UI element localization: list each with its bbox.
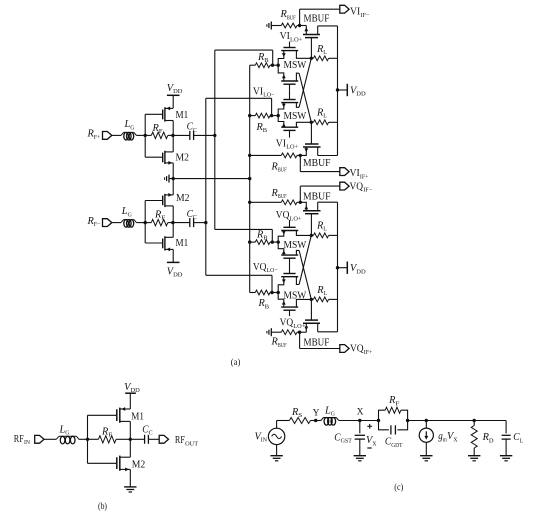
transistor MSW I1 xyxy=(278,42,311,66)
wire cross Q B xyxy=(299,250,311,299)
wire gate rail (b) xyxy=(87,415,89,463)
svg-text:M1: M1 xyxy=(176,110,189,121)
svg-text:IF−: IF− xyxy=(363,187,372,194)
label RL I-inner xyxy=(316,107,327,119)
svg-text:LO+: LO+ xyxy=(290,36,303,43)
svg-text:VI: VI xyxy=(253,86,263,97)
svg-text:D: D xyxy=(489,437,494,444)
node X xyxy=(357,408,364,423)
node drain A xyxy=(171,134,174,137)
svg-text:M2: M2 xyxy=(176,193,190,204)
svg-text:C: C xyxy=(149,430,153,437)
wire rail RF- xyxy=(206,98,272,292)
svg-text:IF−: IF− xyxy=(360,12,369,19)
node RF-right xyxy=(406,419,409,422)
wire xyxy=(79,438,88,440)
svg-text:LO+: LO+ xyxy=(290,215,302,222)
resistor RD xyxy=(471,421,494,456)
svg-text:VQ: VQ xyxy=(350,181,364,192)
svg-text:L: L xyxy=(520,437,524,444)
resistor RF (b) xyxy=(98,426,116,443)
transistor MSW Q4 xyxy=(278,220,311,242)
label MBUF I-B xyxy=(303,158,331,169)
svg-text:GDT: GDT xyxy=(391,442,402,449)
svg-text:DD: DD xyxy=(356,91,366,98)
svg-text:BUF: BUF xyxy=(287,15,296,22)
transistor MSW Q2 xyxy=(278,267,299,293)
transistor MSW I3 xyxy=(278,91,299,116)
label VI_LO- xyxy=(253,86,275,98)
svg-text:B: B xyxy=(265,303,270,310)
svg-text:R: R xyxy=(270,337,277,348)
node I-buffer A xyxy=(298,24,301,27)
inductor LG (stage A) xyxy=(121,119,137,140)
label MSW Q-top xyxy=(284,240,307,251)
node gm xyxy=(425,419,428,422)
svg-text:MSW: MSW xyxy=(284,290,307,301)
svg-text:R: R xyxy=(482,432,489,443)
svg-text:LO−: LO− xyxy=(263,92,274,99)
svg-text:F: F xyxy=(396,400,400,407)
node Q-buffer A xyxy=(298,331,301,334)
label MBUF Q-A xyxy=(303,191,331,202)
transistor MSW I4 xyxy=(278,116,311,138)
svg-text:M2: M2 xyxy=(132,459,146,470)
resistor RF (stage B) xyxy=(151,209,168,226)
svg-text:B: B xyxy=(263,127,268,134)
svg-text:F−: F− xyxy=(94,221,101,228)
label RB I-outer xyxy=(257,52,269,64)
svg-text:M2: M2 xyxy=(176,153,190,164)
label RL Q-inner xyxy=(316,220,327,232)
supply VDD (I) xyxy=(336,84,366,98)
label VX xyxy=(366,435,377,447)
node rail RF- stage xyxy=(204,221,207,224)
svg-text:LO+: LO+ xyxy=(293,323,305,330)
svg-text:G: G xyxy=(65,430,69,437)
svg-text:MSW: MSW xyxy=(284,240,307,251)
node drain B xyxy=(171,221,174,224)
svg-text:MBUF: MBUF xyxy=(303,158,331,169)
resistor RF (c) xyxy=(379,395,408,421)
svg-text:IN: IN xyxy=(261,437,268,444)
svg-text:R: R xyxy=(255,122,262,133)
label VQ_LO+ A xyxy=(276,210,302,222)
svg-text:R: R xyxy=(388,395,395,406)
wire xyxy=(137,222,146,224)
svg-text:VI: VI xyxy=(276,138,286,149)
svg-text:R: R xyxy=(316,44,323,55)
node Q-buffer B xyxy=(299,201,302,204)
label VI_LO+ A xyxy=(280,31,303,43)
transistor MSW Q3 xyxy=(278,242,299,267)
node gate rail B xyxy=(144,221,147,224)
label RB I-inner xyxy=(255,122,267,134)
svg-text:R: R xyxy=(316,285,323,296)
bias terminal Q-buffer A xyxy=(267,328,271,336)
supply VDD (b) xyxy=(124,382,140,409)
label RB Q-inner xyxy=(256,229,268,241)
label MBUF I-A xyxy=(304,13,330,24)
svg-text:IF+: IF+ xyxy=(360,173,369,180)
svg-text:VQ: VQ xyxy=(280,318,294,329)
svg-text:LO+: LO+ xyxy=(286,144,298,151)
wire xyxy=(145,222,173,224)
wire gate rail B xyxy=(144,201,146,244)
source gmVX xyxy=(419,421,458,456)
svg-text:R: R xyxy=(86,129,93,140)
wire I IF output A xyxy=(300,9,340,25)
label RBUF Q-A xyxy=(270,188,286,200)
transistor M2 (stage B NMOS) xyxy=(145,179,189,223)
svg-text:MBUF: MBUF xyxy=(303,191,331,202)
svg-text:(b): (b) xyxy=(98,501,107,512)
svg-text:M1: M1 xyxy=(176,238,189,249)
ground gm xyxy=(420,456,432,461)
label VI_IF- xyxy=(350,6,370,18)
label MSW I-top xyxy=(284,60,307,71)
svg-text:IF+: IF+ xyxy=(364,349,373,356)
input port RF+ xyxy=(86,129,121,141)
label MSW I-bot xyxy=(284,111,307,122)
svg-text:X: X xyxy=(357,408,364,418)
input port RF_IN xyxy=(14,434,57,446)
wire Q IF output B xyxy=(300,186,340,202)
svg-text:(c): (c) xyxy=(394,482,403,493)
ground VIN xyxy=(270,456,282,461)
node Y xyxy=(313,408,320,422)
svg-text:R: R xyxy=(101,426,108,437)
label VQ_IF+ xyxy=(350,344,372,356)
wire rail RF+ xyxy=(215,50,273,242)
label VI_LO+ B xyxy=(276,138,299,150)
svg-text:BUF: BUF xyxy=(278,342,287,349)
svg-text:DD: DD xyxy=(356,268,366,275)
resistor RBUF (Q inner) xyxy=(248,200,300,205)
transistor MBUF (Q outer) xyxy=(300,299,338,332)
wire xyxy=(408,420,507,422)
ground RD xyxy=(468,456,480,461)
svg-text:F+: F+ xyxy=(94,134,101,141)
svg-text:VQ: VQ xyxy=(253,262,267,273)
svg-text:R: R xyxy=(291,407,298,418)
wire xyxy=(277,420,290,422)
wire xyxy=(145,134,173,136)
output port IIF B xyxy=(340,168,349,176)
inductor LG (c) xyxy=(321,405,339,425)
svg-text:R: R xyxy=(279,9,286,20)
wire VDD rail I xyxy=(337,26,339,156)
output port RF_OUT xyxy=(159,435,198,447)
svg-text:R: R xyxy=(257,52,264,63)
svg-text:DD: DD xyxy=(173,88,183,95)
wire Q IF output A xyxy=(300,332,340,348)
node bias rail xyxy=(248,177,251,180)
caption (c) xyxy=(394,482,403,493)
svg-text:G: G xyxy=(130,124,134,131)
transistor M2 (stage A NMOS) xyxy=(145,135,189,178)
label RB Q-outer xyxy=(257,298,269,310)
label VX plus xyxy=(367,424,372,429)
svg-text:L: L xyxy=(323,113,327,120)
node bias stage xyxy=(172,177,175,180)
node b-gate xyxy=(86,438,89,441)
wire xyxy=(310,420,321,422)
svg-text:R: R xyxy=(316,107,323,118)
svg-text:LO−: LO− xyxy=(267,267,278,274)
ground (b) xyxy=(124,487,136,492)
transistor M2 (b NMOS) xyxy=(88,439,146,487)
svg-text:R: R xyxy=(270,188,277,199)
svg-text:X: X xyxy=(453,436,458,443)
svg-text:IN: IN xyxy=(24,439,30,446)
svg-text:MSW: MSW xyxy=(284,111,307,122)
wire I IF output B xyxy=(300,155,340,171)
label RBUF I-A xyxy=(279,9,295,21)
node RF-left xyxy=(377,419,380,422)
supply VDD (stage A) xyxy=(167,83,183,108)
transistor MBUF (Q inner) xyxy=(300,202,337,235)
capacitor CL xyxy=(502,421,524,456)
ground CGST xyxy=(354,456,366,461)
bias terminal xyxy=(165,175,169,183)
label VQ_LO- xyxy=(253,262,278,274)
label RL Q-outer xyxy=(316,285,327,297)
svg-text:R: R xyxy=(270,161,277,172)
svg-text:MSW: MSW xyxy=(284,60,307,71)
label RL I-outer xyxy=(316,44,327,56)
input port RF- xyxy=(86,216,121,228)
resistor RB (I inner) xyxy=(248,113,280,118)
transistor M1 (b PMOS) xyxy=(88,407,145,439)
transistor MBUF (I inner) xyxy=(300,122,337,155)
label VX minus xyxy=(367,447,371,449)
svg-text:R: R xyxy=(256,229,263,240)
transistor MBUF (I outer) xyxy=(300,26,338,59)
resistor RS xyxy=(289,407,310,424)
wire cross I B xyxy=(299,58,311,107)
capacitor CC (stage B) xyxy=(173,209,206,227)
svg-text:VI: VI xyxy=(350,6,360,17)
svg-text:BUF: BUF xyxy=(278,167,287,174)
output port IIF A xyxy=(340,5,349,13)
resistor RBUF (I inner) xyxy=(248,153,300,158)
label MSW Q-bot xyxy=(284,290,307,301)
svg-text:B: B xyxy=(263,235,268,242)
transistor MSW Q1 xyxy=(278,293,311,317)
resistor RL (Q inner) xyxy=(310,233,338,238)
wire VDD rail Q xyxy=(337,202,339,332)
resistor RL (I outer) xyxy=(310,56,338,61)
svg-text:BUF: BUF xyxy=(278,193,287,200)
svg-text:L: L xyxy=(324,290,328,297)
svg-text:VQ: VQ xyxy=(350,344,364,355)
resistor RBUF (I outer) xyxy=(271,23,299,28)
node I-buffer B xyxy=(299,154,302,157)
svg-text:VI: VI xyxy=(350,168,360,179)
svg-text:X: X xyxy=(372,441,377,448)
node gate rail A xyxy=(144,134,147,137)
capacitor CGDT xyxy=(379,421,408,449)
label VQ_LO+ B xyxy=(280,318,306,330)
transistor MSW I2 xyxy=(278,65,299,91)
ground CL xyxy=(500,456,512,461)
resistor RL (Q outer) xyxy=(310,297,338,302)
svg-text:G: G xyxy=(128,211,132,218)
source VIN xyxy=(255,421,285,456)
svg-text:OUT: OUT xyxy=(185,440,198,447)
label VI_IF+ xyxy=(350,168,369,180)
inductor LG (b) xyxy=(56,424,79,444)
svg-text:GST: GST xyxy=(341,438,352,445)
capacitor CGST xyxy=(334,421,365,456)
node b-drain xyxy=(129,438,132,441)
label RBUF Q-B xyxy=(270,337,286,349)
label MBUF Q-B xyxy=(304,338,330,349)
svg-text:VI: VI xyxy=(280,31,290,42)
wire xyxy=(137,134,146,136)
caption (b) xyxy=(98,501,107,512)
svg-text:B: B xyxy=(264,57,269,64)
svg-text:L: L xyxy=(323,49,327,56)
wire cross Q A xyxy=(299,235,311,284)
svg-text:VQ: VQ xyxy=(276,210,290,221)
svg-text:M1: M1 xyxy=(131,411,144,422)
svg-text:DD: DD xyxy=(173,272,183,279)
supply VDD (Q) xyxy=(336,262,366,276)
label RBUF I-B xyxy=(270,161,286,173)
resistor RB (Q inner) xyxy=(248,240,280,245)
wire bias rail xyxy=(249,65,251,292)
svg-text:L: L xyxy=(323,226,327,233)
wire bias xyxy=(169,178,250,180)
resistor RBUF (Q outer) xyxy=(271,330,299,335)
resistor RL (I inner) xyxy=(310,120,338,125)
svg-text:Y: Y xyxy=(313,408,320,418)
resistor RF (stage A) xyxy=(151,123,168,139)
node rail RF+ stage xyxy=(213,134,216,137)
svg-text:R: R xyxy=(86,216,93,227)
output port QIF B xyxy=(340,182,349,190)
svg-text:RF: RF xyxy=(175,435,185,446)
label VQ_IF- xyxy=(350,181,373,193)
svg-text:RF: RF xyxy=(14,434,24,445)
node RD xyxy=(473,419,476,422)
wire gate rail A xyxy=(144,114,146,157)
svg-text:MBUF: MBUF xyxy=(304,13,330,24)
caption (a) xyxy=(231,357,241,368)
capacitor CC (b) xyxy=(130,424,159,444)
resistor RB (I outer) xyxy=(250,63,280,68)
svg-text:MBUF: MBUF xyxy=(304,338,330,349)
resistor RB (Q outer) xyxy=(250,290,280,295)
transistor M1 (stage A PMOS) xyxy=(145,107,188,136)
bias terminal I-buffer A xyxy=(267,22,271,30)
wire xyxy=(339,420,379,422)
inductor LG (stage B) xyxy=(121,206,137,227)
svg-text:R: R xyxy=(154,209,161,220)
svg-text:G: G xyxy=(331,411,335,418)
svg-text:(a): (a) xyxy=(231,357,241,368)
svg-text:R: R xyxy=(316,220,323,231)
output port QIF A xyxy=(340,345,349,353)
wire cross I A xyxy=(299,73,311,122)
wire xyxy=(88,438,131,440)
supply VDD (stage B) xyxy=(167,249,183,278)
capacitor CC (stage A) xyxy=(173,122,215,140)
transistor M1 (stage B PMOS) xyxy=(145,223,188,252)
svg-text:R: R xyxy=(257,298,264,309)
